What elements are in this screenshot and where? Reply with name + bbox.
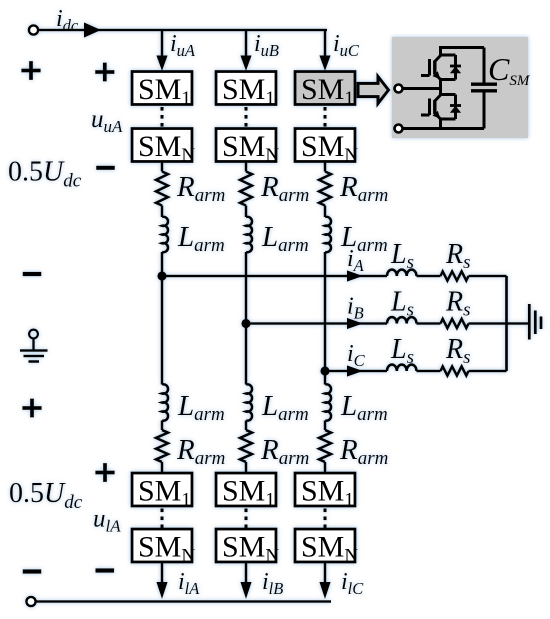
resistor R_arm upper A xyxy=(156,172,168,206)
wire: top DC bus xyxy=(39,29,328,32)
svg-text:0.5Udc: 0.5Udc xyxy=(9,478,83,513)
svg-text:ilC: ilC xyxy=(341,569,364,598)
label − (upper DC half, outer) xyxy=(23,272,42,276)
terminal: SM lower port xyxy=(395,125,403,133)
inductor L_s phase B xyxy=(387,317,416,323)
svg-text:Ls: Ls xyxy=(390,287,414,321)
inductor L_s phase C xyxy=(387,365,416,371)
svg-text:iuC: iuC xyxy=(333,31,360,60)
wire: SMN to R_arm upper C xyxy=(324,162,327,172)
terminal: DC negative input xyxy=(26,597,35,606)
inductor L_arm lower B xyxy=(246,384,252,420)
wire: upper arm C from DC bus xyxy=(324,30,327,58)
wire: upper arm A from DC bus xyxy=(161,30,164,58)
svg-text:Rarm: Rarm xyxy=(260,171,309,206)
submodule box SM1 upper A xyxy=(132,72,192,105)
wire: arm C mid section xyxy=(324,252,327,385)
wire: R_arm to SM1 lower C xyxy=(324,462,327,473)
svg-text:iC: iC xyxy=(347,341,366,370)
inductor L_arm lower C xyxy=(325,384,331,420)
resistor R_arm lower C xyxy=(319,430,331,462)
svg-text:Larm: Larm xyxy=(340,390,388,425)
resistor R_arm upper B xyxy=(240,172,252,206)
wire: SM upper port to midpoint xyxy=(403,87,441,90)
dotted link upper A (SM1..SMN) xyxy=(161,107,164,127)
resistor R_arm lower B xyxy=(240,430,252,462)
current arrow i_uA xyxy=(156,56,167,72)
transistor T2 (lower IGBT) xyxy=(421,114,430,117)
svg-text:Ls: Ls xyxy=(390,239,414,273)
wire: right AC bus xyxy=(505,276,508,371)
submodule box SM1 upper C xyxy=(295,72,355,105)
block arrow (SM1 to detail) xyxy=(358,77,389,104)
label + (upper DC half, outer) xyxy=(21,69,40,73)
submodule box SM1 upper B xyxy=(216,72,276,105)
capacitor C_SM xyxy=(483,48,486,85)
current arrow i_C xyxy=(347,365,363,376)
svg-text:Rarm: Rarm xyxy=(176,171,225,206)
svg-text:Rs: Rs xyxy=(445,287,471,321)
svg-text:Larm: Larm xyxy=(261,221,309,256)
submodule box SMN lower A xyxy=(132,529,192,562)
inductor L_arm lower A xyxy=(162,384,168,420)
submodule box SMN upper C xyxy=(295,129,355,162)
svg-text:iuB: iuB xyxy=(254,31,279,60)
svg-text:Rs: Rs xyxy=(445,334,471,368)
label + (upper arm voltage) xyxy=(95,70,114,74)
wire: R_arm to SM1 lower A xyxy=(161,462,164,473)
svg-text:idc: idc xyxy=(56,6,79,35)
wire: L_s to R_s phase B xyxy=(417,322,441,325)
terminal: SM upper port xyxy=(395,85,403,93)
wire: SM top rail xyxy=(441,46,485,49)
current arrow i_dc xyxy=(84,22,101,37)
svg-text:Larm: Larm xyxy=(177,221,225,256)
label + (lower DC half, outer) xyxy=(22,406,41,410)
dotted link upper C (SM1..SMN) xyxy=(324,107,327,127)
resistor R_arm upper C xyxy=(319,172,331,206)
svg-text:Ls: Ls xyxy=(390,334,414,368)
svg-text:iuA: iuA xyxy=(170,31,196,60)
current arrow i_A xyxy=(347,270,363,281)
node A: junction dot xyxy=(157,271,166,280)
wire: ground lead xyxy=(507,322,529,325)
svg-text:Larm: Larm xyxy=(261,390,309,425)
svg-text:Rarm: Rarm xyxy=(339,171,388,206)
dotted link lower A (SM1..SMN) xyxy=(161,509,164,529)
node B: junction dot xyxy=(241,319,250,328)
inductor L_arm upper C xyxy=(325,217,331,252)
wire: R_s to bus phase B xyxy=(469,322,507,325)
wire: SMN to R_arm upper B xyxy=(245,162,248,172)
resistor R_s phase C xyxy=(441,366,469,375)
svg-text:ilB: ilB xyxy=(262,569,283,598)
resistor R_arm lower A xyxy=(156,430,168,462)
wire: L_s to R_s phase C xyxy=(417,370,441,373)
SM detail background box xyxy=(392,37,528,138)
svg-text:Larm: Larm xyxy=(177,390,225,425)
wire: upper arm B from DC bus xyxy=(245,30,248,58)
ground (left, DC midpoint) xyxy=(29,330,38,339)
label + (lower arm voltage) xyxy=(95,471,114,475)
wire: SMN to R_arm upper A xyxy=(161,162,164,172)
wire: L_arm to R_arm lower B xyxy=(245,421,248,431)
wire: phase C output line xyxy=(325,370,387,373)
wire: R_s to bus phase C xyxy=(469,370,507,373)
submodule box SM1 lower B xyxy=(216,473,276,506)
wire: R_arm to SM1 lower B xyxy=(245,462,248,473)
label − (upper arm voltage) xyxy=(96,166,115,170)
wire: SMN lower C to bottom bus xyxy=(324,562,327,584)
current arrow i_uC xyxy=(319,56,330,72)
inductor L_arm upper A xyxy=(162,217,168,252)
terminal: DC positive input xyxy=(29,25,38,34)
diode D1 (antiparallel, upper) xyxy=(441,54,456,57)
current arrow i_lA xyxy=(156,582,167,599)
diode D2 (antiparallel, lower) xyxy=(441,93,456,96)
submodule box SMN lower C xyxy=(295,529,355,562)
wire: bottom DC bus xyxy=(36,600,331,603)
svg-text:Rs: Rs xyxy=(445,239,471,273)
transistor T1 (upper IGBT) xyxy=(421,74,430,77)
svg-text:Rarm: Rarm xyxy=(260,434,309,469)
svg-text:ilA: ilA xyxy=(178,569,200,598)
current arrow i_uB xyxy=(240,56,251,72)
wire: R_arm to L_arm upper C xyxy=(324,206,327,218)
resistor R_s phase B xyxy=(441,319,469,328)
submodule box SM1 lower C xyxy=(295,473,355,506)
wire: SMN lower B to bottom bus xyxy=(245,562,248,584)
wire: R_arm to L_arm upper B xyxy=(245,206,248,218)
resistor R_s phase A xyxy=(441,271,469,280)
wire: L_arm to R_arm lower C xyxy=(324,421,327,431)
node C: junction dot xyxy=(320,366,329,375)
wire: arm B mid section xyxy=(245,252,248,385)
label − (lower arm voltage) xyxy=(96,568,115,572)
wire: phase B output line xyxy=(246,322,387,325)
current arrow i_B xyxy=(347,318,363,329)
wire: SM switch chain xyxy=(439,46,442,56)
dotted link lower C (SM1..SMN) xyxy=(324,509,327,529)
wire: L_arm to R_arm lower A xyxy=(161,421,164,431)
svg-text:0.5Udc: 0.5Udc xyxy=(8,157,82,192)
svg-text:uuA: uuA xyxy=(91,106,123,136)
current arrow i_lC xyxy=(319,582,330,599)
dotted link upper B (SM1..SMN) xyxy=(245,107,248,127)
wire: R_s to bus phase A xyxy=(469,275,507,278)
submodule box SMN upper A xyxy=(132,129,192,162)
wire: phase A output line xyxy=(162,275,387,278)
inductor L_arm upper B xyxy=(246,217,252,252)
svg-text:Rarm: Rarm xyxy=(176,434,225,469)
label − (lower DC half, outer) xyxy=(23,569,42,573)
wire: R_arm to L_arm upper A xyxy=(161,206,164,218)
wire: arm A mid section xyxy=(161,252,164,385)
ground (right, neutral) xyxy=(528,304,531,340)
svg-text:ulA: ulA xyxy=(93,506,121,536)
submodule box SM1 lower A xyxy=(132,473,192,506)
dotted link lower B (SM1..SMN) xyxy=(245,509,248,529)
wire: L_s to R_s phase A xyxy=(417,275,441,278)
current arrow i_lB xyxy=(240,582,251,599)
wire: SMN lower A to bottom bus xyxy=(161,562,164,584)
svg-text:iB: iB xyxy=(347,294,364,323)
inductor L_s phase A xyxy=(387,270,416,276)
svg-text:Rarm: Rarm xyxy=(339,434,388,469)
submodule box SMN lower B xyxy=(216,529,276,562)
submodule box SMN upper B xyxy=(216,129,276,162)
wire: SM bottom rail xyxy=(403,127,485,130)
